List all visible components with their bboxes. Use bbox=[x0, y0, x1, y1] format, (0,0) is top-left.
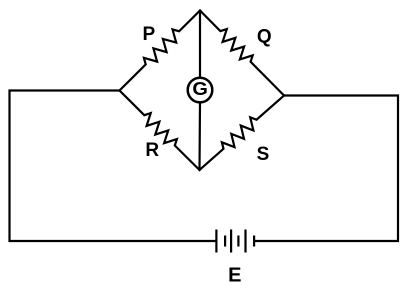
svg-text:R: R bbox=[145, 140, 159, 161]
svg-text:E: E bbox=[228, 265, 241, 286]
svg-text:S: S bbox=[257, 144, 270, 165]
svg-text:P: P bbox=[143, 24, 156, 45]
svg-text:G: G bbox=[192, 78, 208, 99]
svg-text:Q: Q bbox=[257, 27, 272, 48]
